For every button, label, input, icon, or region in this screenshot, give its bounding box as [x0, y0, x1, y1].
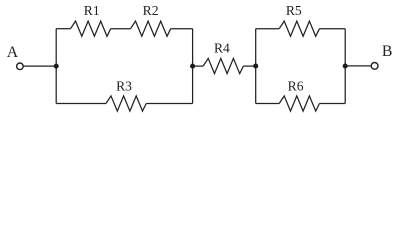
wire right vertical bus block 2: [344, 29, 346, 104]
resistor R3: [106, 96, 146, 111]
wire left vertical bus block 2: [255, 29, 257, 104]
resistor R4: [203, 58, 243, 73]
svg-text:R6: R6: [288, 79, 304, 94]
svg-text:R5: R5: [286, 3, 302, 18]
svg-text:B: B: [382, 43, 393, 60]
svg-text:R2: R2: [143, 3, 159, 18]
wire A to left bus: [24, 65, 57, 67]
svg-text:R4: R4: [214, 41, 230, 56]
wire junction 1 to R4: [193, 65, 204, 67]
wire bottom rail block 2 left segment: [256, 103, 280, 105]
wire bottom rail left segment: [56, 103, 106, 105]
wire bottom rail block 2 right segment: [319, 103, 345, 105]
resistor R2: [131, 21, 171, 36]
wire between R1 and R2: [111, 28, 131, 30]
wire junction 4 to B: [345, 65, 371, 67]
resistor R6: [279, 96, 319, 111]
wire bottom rail right segment: [146, 103, 192, 105]
wire top rail block 2 left segment: [256, 28, 280, 30]
junction dot left bus: [54, 64, 59, 69]
wire R4 to junction 2: [243, 65, 255, 67]
junction dot right bus block 1: [190, 64, 195, 69]
wire left vertical bus block 1: [55, 29, 57, 104]
node A terminal circle: [17, 63, 24, 70]
wire top rail right segment: [171, 28, 193, 30]
wire top rail block 2 right segment: [319, 28, 345, 30]
svg-text:R3: R3: [116, 79, 132, 94]
junction dot left bus block 2: [253, 64, 258, 69]
resistor R1: [71, 21, 111, 36]
svg-text:A: A: [7, 44, 19, 61]
svg-text:R1: R1: [84, 3, 100, 18]
wire right vertical bus block 1: [192, 29, 194, 104]
resistor R5: [279, 21, 319, 36]
junction dot right bus block 2: [343, 64, 348, 69]
node B terminal circle: [371, 63, 378, 70]
wire top rail left segment: [56, 28, 70, 30]
